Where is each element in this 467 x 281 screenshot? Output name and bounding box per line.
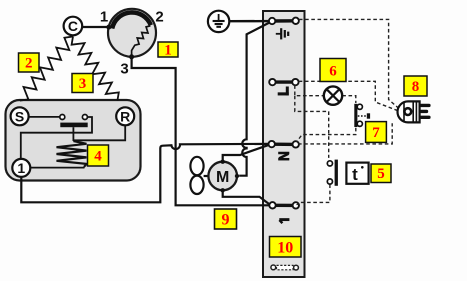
svg-text:6: 6 (329, 64, 337, 80)
svg-text:S: S (15, 108, 24, 124)
overload protector body U1 (108, 9, 156, 57)
door switch (7) (354, 104, 357, 127)
strip label N (rotated) (278, 152, 289, 155)
strip earth symbol (rotated) (276, 33, 281, 35)
svg-text:5: 5 (377, 166, 385, 182)
wire relay terminal1 to N (with hop over vertical) (21, 144, 268, 202)
overload pin 3 junction dot (129, 54, 134, 59)
strip terminal N bar (272, 142, 296, 146)
relay contact right (82, 115, 87, 120)
wire R to coil top (74, 125, 125, 140)
compressor start winding (2) zigzag (20, 37, 73, 101)
wire terminal 1 to coil bottom (30, 167, 84, 169)
svg-text:1: 1 (100, 9, 108, 26)
thermostat (5) (327, 161, 332, 166)
relay contact bar (60, 123, 87, 128)
label 5 (371, 164, 391, 183)
svg-text:8: 8 (412, 79, 420, 95)
overload pin 1 junction dot (106, 25, 111, 30)
strip terminal 1 bar (273, 204, 296, 207)
svg-text:R: R (120, 108, 130, 124)
relay contact left (60, 115, 65, 120)
svg-text:C: C (68, 18, 78, 34)
label 7 (366, 122, 387, 143)
motor right junction dot (235, 174, 239, 178)
svg-text:2: 2 (25, 56, 33, 72)
relay box (start relay enclosure) (6, 100, 141, 181)
overload bimetal arc (112, 12, 151, 28)
dashed wire lamp to door switch (342, 96, 356, 103)
dashed wire L to lamp (295, 85, 324, 95)
dashed wire N to plug (298, 123, 392, 144)
wire contact bar to coil top (72, 127, 74, 141)
label 1 (158, 42, 178, 59)
label 8 (404, 76, 427, 96)
interior lamp (6) (324, 86, 342, 104)
strip terminal L bar (272, 80, 295, 83)
label 6 (320, 59, 346, 82)
svg-text:10: 10 (277, 240, 293, 257)
label 10 (270, 237, 302, 258)
svg-text:7: 7 (372, 125, 380, 141)
wire motor top to N (223, 145, 269, 162)
label 2 (19, 53, 40, 72)
fan motor M (9) (208, 162, 237, 191)
strip label 1 (rotated) (279, 218, 289, 221)
fan blade top (190, 157, 203, 175)
dashed wire L to thermostat (295, 96, 329, 158)
svg-text:1: 1 (17, 160, 25, 176)
terminal strip body (component 10) (263, 11, 305, 277)
svg-text:3: 3 (79, 76, 87, 92)
wire C to overload pin 1 (80, 26, 109, 28)
svg-text:4: 4 (94, 149, 102, 165)
mains plug (8) (398, 101, 420, 122)
motor bottom junction dot (221, 188, 225, 192)
svg-text:t: t (352, 165, 358, 184)
fan shaft (204, 175, 209, 177)
strip bottom link icon (271, 265, 276, 270)
motor top junction dot (221, 160, 225, 164)
strip label L (rotated) (278, 92, 289, 95)
svg-text:1: 1 (164, 43, 172, 59)
svg-text:2: 2 (155, 9, 163, 26)
compressor run winding (3) zigzag (72, 37, 119, 101)
label 4 (88, 145, 109, 166)
dashed wire thermostat to strip terminal 1 (297, 184, 330, 204)
wire earth circle to strip terminal (229, 20, 269, 23)
dashed wire L to plug (299, 81, 397, 110)
label 9 (215, 209, 237, 229)
strip terminal E bar (272, 19, 296, 23)
wire right contact to terminal 1 (21, 117, 92, 159)
relay terminal S (11, 107, 29, 125)
overload heater zigzag (132, 26, 151, 57)
svg-text:9: 9 (222, 212, 230, 229)
relay coil (4) (57, 141, 87, 167)
fan blade bottom (190, 176, 203, 194)
wire motor bottom to terminal 1 (223, 190, 270, 204)
wire motor frame to earth terminal (with two hops) (239, 23, 269, 176)
relay terminal R (116, 107, 134, 125)
wire S to relay contact (29, 116, 60, 118)
wire overload pin3 down to junction (132, 57, 270, 205)
svg-text:M: M (216, 169, 229, 186)
relay terminal 1 (12, 159, 30, 177)
dashed wire door switch return to N (297, 128, 356, 142)
earth symbol circle (supply earth) (208, 11, 229, 32)
dashed wire E to plug (299, 19, 398, 107)
compressor common terminal C (64, 17, 83, 36)
label 3 (72, 74, 93, 93)
svg-text:3: 3 (120, 61, 128, 78)
